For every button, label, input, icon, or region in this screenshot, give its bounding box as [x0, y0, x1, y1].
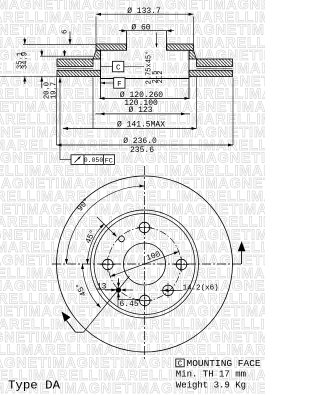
svg-text:F: F — [117, 81, 122, 89]
dim 35.1/34.9 — [24, 38, 26, 45]
svg-text:C: C — [116, 65, 121, 73]
svg-text:Ø 141.5MAX: Ø 141.5MAX — [117, 120, 165, 129]
hat bore walls (D60 hole) — [126, 31, 128, 50]
svg-text:14.2(x6): 14.2(x6) — [183, 284, 219, 292]
svg-text:Min. TH 17 mm: Min. TH 17 mm — [176, 370, 246, 380]
svg-text:6: 6 — [62, 30, 70, 34]
svg-text:Ø 133.7: Ø 133.7 — [127, 7, 161, 16]
friction ring inboard plate right — [189, 70, 233, 76]
bolt hole D14.2 SE — [163, 285, 174, 296]
dim diameter 133.7 — [96, 13, 194, 15]
mounting face — [101, 78, 190, 80]
dim 6 — [69, 32, 71, 45]
bolt hole D14.2 N — [139, 222, 150, 233]
small hole NW — [119, 236, 125, 242]
bolt hole D14.2 S — [140, 295, 151, 306]
svg-text:FC: FC — [105, 157, 113, 165]
hat flange circle D133.7 — [94, 214, 195, 315]
svg-text:2.2: 2.2 — [157, 71, 165, 84]
pin hole D6.45 SW (filled) — [116, 288, 120, 292]
horizontal centerline — [52, 263, 242, 265]
svg-text:13: 13 — [97, 282, 107, 291]
chamfer leader — [156, 33, 158, 48]
ext lines for 141.5 — [92, 78, 94, 129]
hub recess walls (D120) — [100, 50, 102, 99]
svg-text:Ø 60: Ø 60 — [131, 24, 150, 33]
section jog and thick arrow — [76, 331, 84, 333]
dim 20.0/19.7 — [41, 50, 43, 57]
ext line hat top — [23, 43, 96, 45]
ext lines for 236 — [56, 78, 58, 146]
hat top plate hatched left — [96, 44, 127, 50]
friction ring outboard plate right — [197, 59, 233, 67]
svg-text:19.7: 19.7 — [50, 82, 58, 99]
runout tolerance frame 0.050 FC — [59, 78, 61, 160]
hat top plate hatched right — [167, 44, 194, 50]
svg-text:34.9: 34.9 — [22, 52, 30, 69]
svg-text:235.6: 235.6 — [130, 146, 154, 155]
label 6.45 — [117, 293, 119, 307]
ring inner circle — [91, 210, 199, 318]
ext line ring bottom — [0, 76, 57, 78]
datum C box — [101, 66, 113, 68]
friction ring outboard plate left — [57, 59, 93, 67]
svg-text:C: C — [178, 361, 183, 369]
dim diameter 60 — [119, 30, 174, 32]
radial line 135deg with arrow — [97, 217, 115, 235]
bolt circle D100 (dash-dot) — [108, 228, 181, 301]
vertical centerline — [144, 166, 146, 360]
center bore D60 — [124, 243, 166, 285]
mounting face note — [176, 358, 261, 390]
svg-text:Weight 3.9 Kg: Weight 3.9 Kg — [176, 381, 246, 391]
vent channel lines right — [197, 68, 233, 70]
section cutting line 225deg — [84, 276, 130, 332]
view direction thick arrow right — [241, 248, 243, 264]
svg-text:MOUNTING FACE: MOUNTING FACE — [187, 358, 261, 369]
hat wall right — [189, 50, 197, 59]
arc dim 90deg — [67, 186, 145, 264]
arc dim 45deg upper — [88, 224, 105, 264]
friction ring inboard plate left — [57, 70, 101, 76]
bolt hole D14.2 E — [176, 259, 187, 270]
bolt hole D14.2 W — [103, 259, 114, 270]
arc dim 45deg lower — [83, 264, 101, 308]
dim 100 bolt circle — [110, 252, 179, 277]
hat wall left — [93, 50, 101, 59]
datum F box — [101, 82, 114, 84]
svg-text:0.050: 0.050 — [84, 157, 104, 164]
outer circle D236 — [57, 176, 233, 352]
svg-text:6.45: 6.45 — [120, 300, 139, 309]
ext line mid (6 ref) — [40, 55, 93, 57]
svg-text:Type DA: Type DA — [8, 379, 61, 393]
vent channel lines left — [57, 68, 93, 70]
